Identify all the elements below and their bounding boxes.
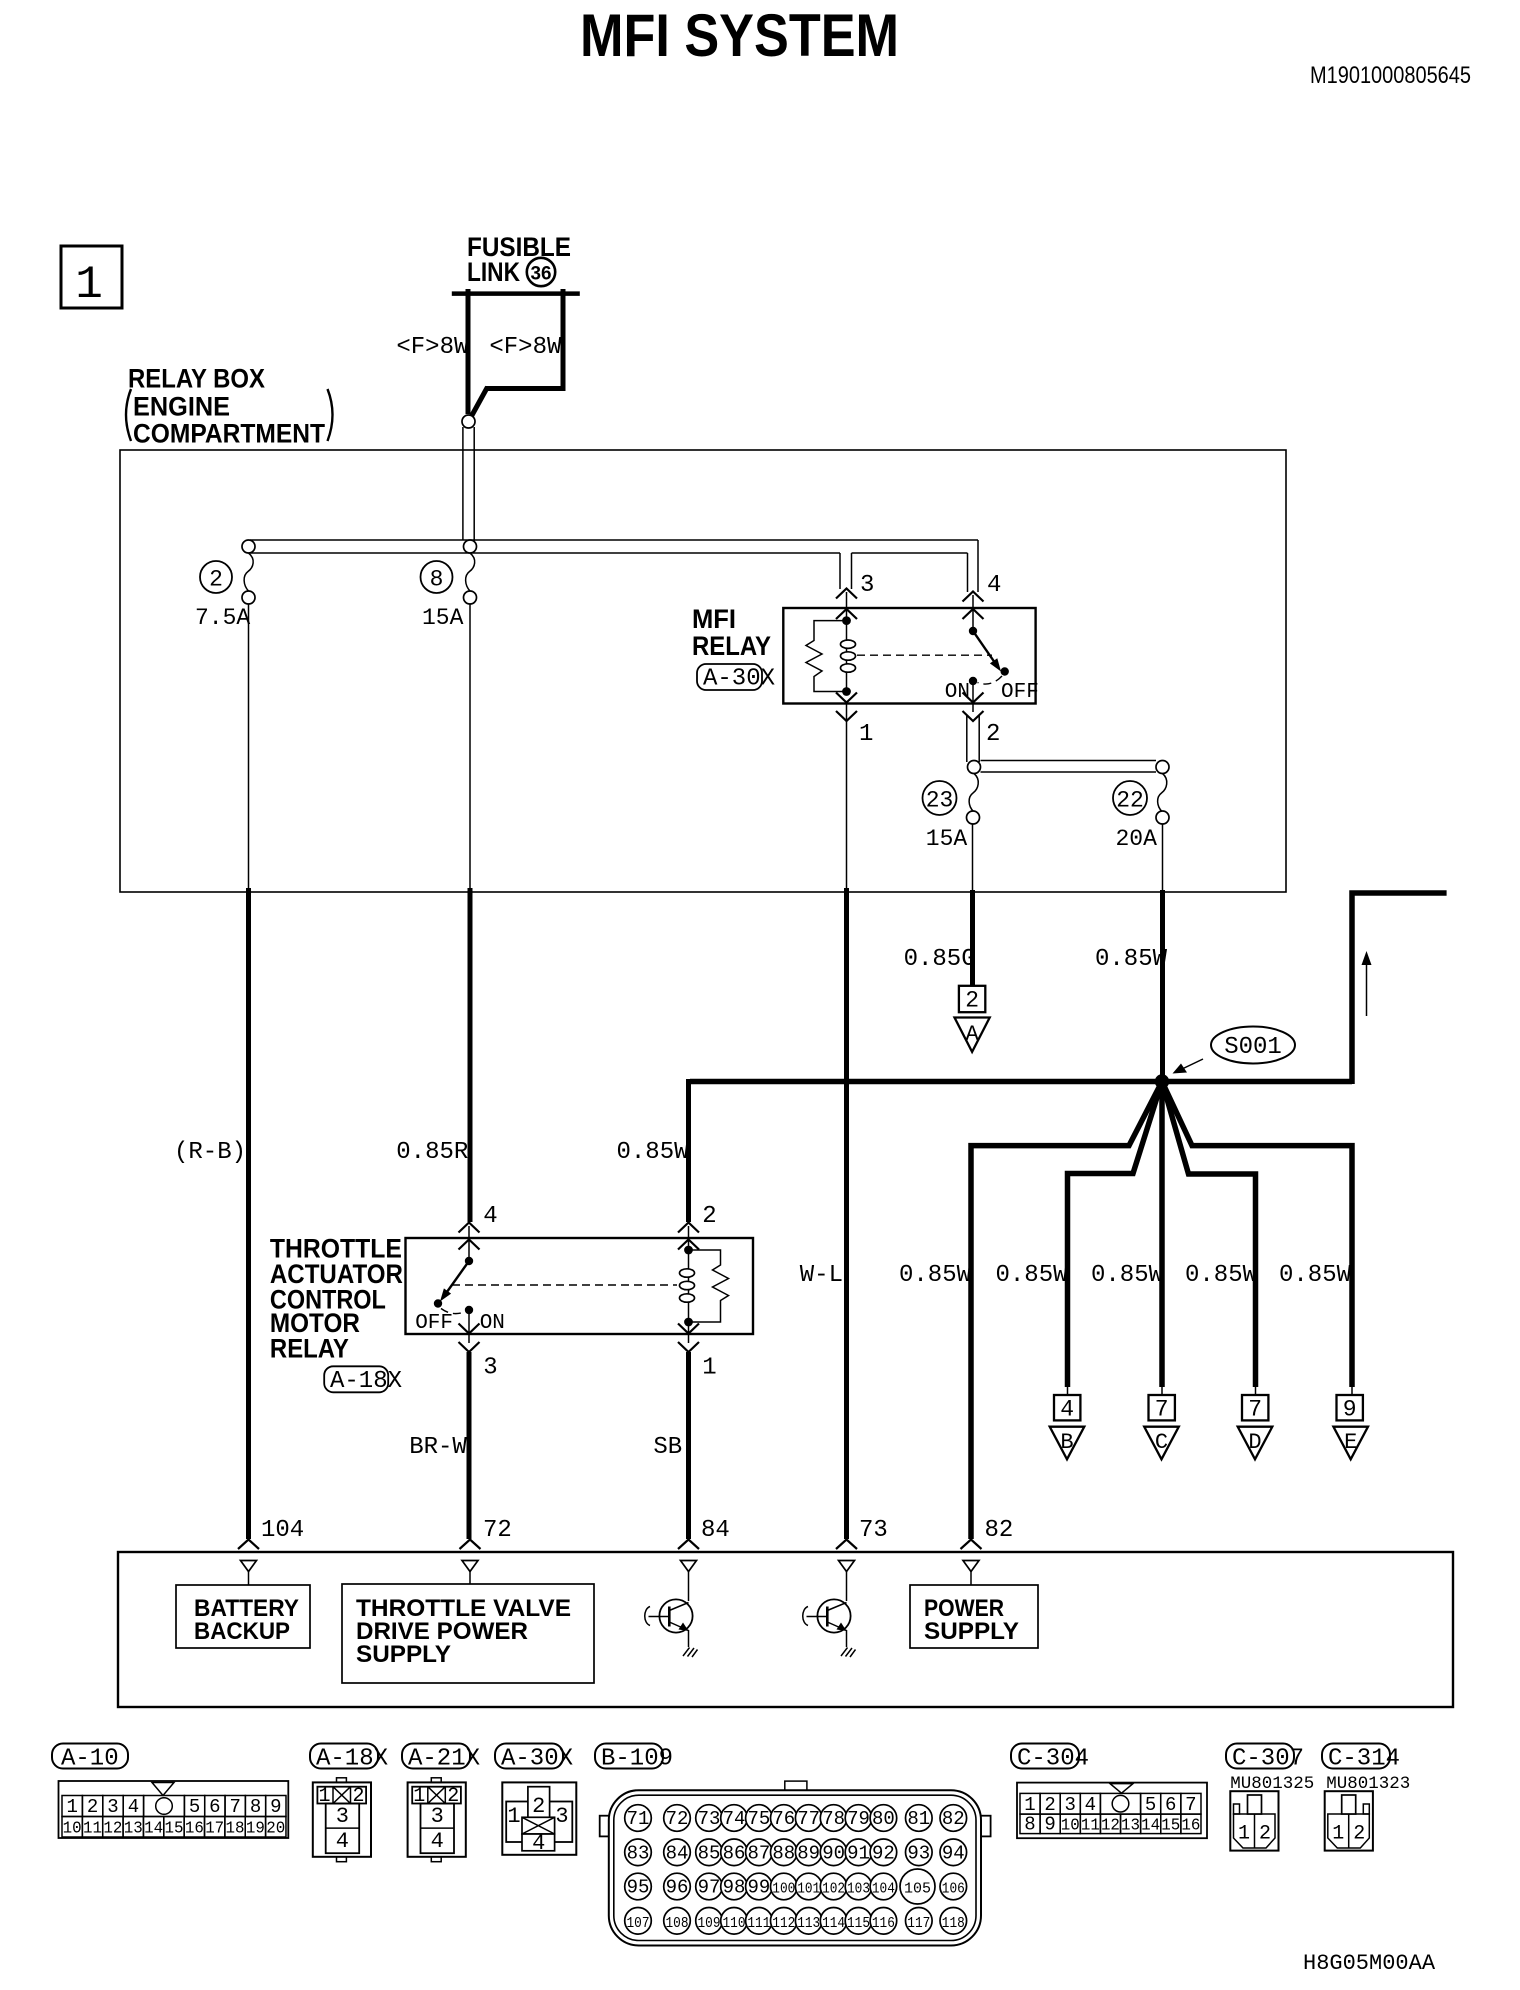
resistor in MFI relay	[806, 621, 847, 692]
svg-text:16: 16	[1181, 1817, 1200, 1836]
svg-text:SUPPLY: SUPPLY	[924, 1618, 1019, 1645]
svg-text:13: 13	[1121, 1817, 1140, 1836]
svg-text:8: 8	[1024, 1814, 1035, 1836]
svg-text:81: 81	[907, 1808, 930, 1830]
svg-text:17: 17	[205, 1820, 224, 1839]
svg-text:13: 13	[124, 1820, 143, 1839]
wire trunk left corner down to throttle relay pin 2	[686, 1079, 691, 1222]
svg-text:B: B	[1060, 1430, 1073, 1455]
svg-text:3: 3	[483, 1355, 497, 1382]
svg-text:115: 115	[847, 1915, 870, 1932]
fuse 8 element	[421, 553, 477, 631]
transistor Q1	[645, 1599, 693, 1647]
connector C-304 body	[1017, 1783, 1207, 1839]
node ON contact dot	[969, 677, 977, 685]
svg-text:1: 1	[318, 1785, 330, 1808]
svg-text:0.85R: 0.85R	[396, 1139, 468, 1166]
svg-text:87: 87	[747, 1842, 770, 1864]
svg-text:RELAY BOX: RELAY BOX	[128, 364, 265, 394]
svg-text:95: 95	[627, 1877, 650, 1899]
fuse 23 element	[923, 774, 980, 853]
svg-text:104: 104	[872, 1881, 895, 1898]
svg-text:2: 2	[532, 1794, 545, 1819]
svg-text:10: 10	[63, 1820, 82, 1839]
svg-text:84: 84	[666, 1842, 689, 1864]
dashed throw arc to ON contact	[978, 676, 1003, 684]
svg-text:7.5A: 7.5A	[195, 605, 250, 631]
svg-text:5: 5	[1145, 1794, 1156, 1816]
svg-text:108: 108	[666, 1915, 689, 1932]
svg-text:111: 111	[747, 1915, 770, 1932]
node S001 callout	[1173, 1027, 1296, 1074]
pin 1 terminal chevrons	[836, 693, 857, 722]
svg-text:1: 1	[413, 1785, 425, 1808]
svg-text:A-18X: A-18X	[330, 1368, 402, 1395]
svg-text:105: 105	[904, 1881, 931, 1898]
terminal box 4 above triangle B	[1050, 1385, 1085, 1459]
wire end arrow 82	[961, 1540, 982, 1550]
wire fan inner-left from S001 to terminal B	[1068, 1082, 1163, 1388]
svg-text:ON: ON	[945, 681, 970, 704]
svg-text:2: 2	[209, 567, 223, 593]
pin 4 terminal chevrons	[963, 592, 984, 620]
svg-text:2: 2	[702, 1203, 716, 1230]
svg-text:19: 19	[246, 1820, 265, 1839]
page number box 1	[61, 246, 122, 311]
wire fuse 23 down 0.85G thin	[972, 824, 974, 892]
wire from fuse 2 down (R-B) thin	[248, 604, 250, 889]
svg-text:114: 114	[822, 1915, 845, 1932]
wire MFI relay pin 2 double line down	[967, 716, 979, 762]
svg-text:1: 1	[66, 1796, 77, 1818]
svg-text:79: 79	[847, 1808, 870, 1830]
svg-text:9: 9	[1343, 1397, 1357, 1423]
svg-text:118: 118	[942, 1915, 965, 1932]
svg-text:SB: SB	[653, 1434, 682, 1461]
svg-text:2: 2	[986, 721, 1000, 748]
svg-text:MFI: MFI	[692, 604, 736, 634]
svg-text:112: 112	[772, 1915, 795, 1932]
wire fusible link left leg 8W	[466, 289, 471, 414]
svg-text:12: 12	[1101, 1817, 1120, 1836]
svg-text:1: 1	[859, 721, 873, 748]
svg-text:94: 94	[942, 1842, 965, 1864]
svg-text:4: 4	[987, 572, 1001, 599]
node fuse 22 top circle	[1156, 761, 1169, 774]
svg-text:71: 71	[627, 1808, 650, 1830]
svg-text:0.85G: 0.85G	[904, 946, 976, 973]
svg-text:100: 100	[772, 1881, 795, 1898]
svg-text:MFI SYSTEM: MFI SYSTEM	[580, 2, 899, 69]
wire 0.85W horizontal trunk	[690, 1079, 1352, 1085]
connector label C-304	[1011, 1744, 1089, 1773]
transistor Q2	[803, 1599, 851, 1647]
svg-text:BR-W: BR-W	[409, 1434, 467, 1461]
svg-text:A: A	[965, 1022, 979, 1047]
connector label A-10	[52, 1744, 128, 1773]
fusible link 36 label	[467, 232, 571, 287]
svg-text:0.85W: 0.85W	[1279, 1262, 1352, 1289]
svg-text:6: 6	[1165, 1794, 1176, 1816]
wire (R-B) thick from relay box to connector 104	[246, 888, 251, 1539]
svg-text:3: 3	[860, 572, 874, 599]
svg-text:14: 14	[1141, 1817, 1160, 1836]
connector label A-30X	[495, 1744, 573, 1773]
throttle actuator control motor relay label	[270, 1234, 403, 1364]
connector A-18X body	[313, 1778, 371, 1862]
svg-text:7: 7	[1185, 1794, 1196, 1816]
wire ON contact to pin 3	[468, 1310, 470, 1343]
svg-text:72: 72	[483, 1517, 512, 1544]
terminal box 2 above triangle A	[959, 986, 985, 1014]
dashed actuation line throttle relay	[452, 1284, 677, 1286]
op MFI relay box U1	[783, 608, 1035, 704]
node bus junction circle from fusible link	[464, 540, 477, 553]
svg-text:3: 3	[431, 1804, 444, 1829]
svg-text:116: 116	[872, 1915, 895, 1932]
dashed actuation line MFI relay	[857, 654, 992, 656]
connector B-109 ECU body	[600, 1781, 991, 1945]
node coil bottom dot	[842, 687, 851, 696]
wire MFI relay pin 1 down W-L thin	[846, 703, 848, 889]
female terminal 72	[462, 1561, 478, 1585]
pin 3 terminal chevrons	[836, 589, 857, 620]
svg-text:0.85W: 0.85W	[616, 1139, 689, 1166]
svg-text:8: 8	[250, 1796, 261, 1818]
svg-text:84: 84	[701, 1517, 730, 1544]
svg-text:<F>8W: <F>8W	[396, 334, 469, 361]
wire SB thick from pin 1 to connector 84	[686, 1352, 691, 1539]
svg-text:107: 107	[627, 1915, 650, 1932]
pin 2 terminal chevrons	[963, 693, 984, 722]
svg-text:12: 12	[103, 1820, 122, 1839]
wire ON contact to pin 2	[972, 681, 974, 712]
connector C-307 body	[1230, 1791, 1278, 1850]
female terminal 104	[241, 1561, 257, 1586]
svg-text:76: 76	[772, 1808, 795, 1830]
wire W-L thick from MFI relay pin 1 to connector 73	[844, 888, 849, 1539]
svg-text:72: 72	[666, 1808, 689, 1830]
node bus left circle at fuse 2	[242, 540, 255, 553]
connector label A-21X	[402, 1744, 480, 1773]
svg-text:COMPARTMENT: COMPARTMENT	[133, 419, 325, 449]
coil in throttle relay	[680, 1250, 695, 1322]
svg-text:103: 103	[847, 1881, 870, 1898]
svg-text:7: 7	[1248, 1397, 1262, 1423]
svg-text:4: 4	[336, 1829, 349, 1854]
svg-text:4: 4	[128, 1796, 139, 1818]
svg-text:20: 20	[266, 1820, 285, 1839]
svg-text:0.85W: 0.85W	[995, 1262, 1068, 1289]
svg-text:A-10: A-10	[61, 1746, 119, 1773]
connector label C-314	[1322, 1744, 1400, 1773]
svg-text:A-18X: A-18X	[316, 1746, 388, 1773]
pin 1 terminal chevrons throttle relay	[678, 1324, 699, 1353]
fuse 22 element	[1113, 774, 1169, 853]
svg-text:3: 3	[107, 1796, 118, 1818]
fusible link bar	[452, 291, 580, 296]
wire end arrow 104	[238, 1540, 259, 1550]
relay box (engine compartment) outline	[120, 450, 1286, 892]
switch arm throttle relay	[440, 1257, 473, 1302]
wire 0.85W thick from fuse 22 to node S001	[1160, 890, 1165, 1082]
wire from fuse 8 down 0.85R thin	[469, 604, 471, 889]
svg-text:A-30X: A-30X	[703, 666, 775, 693]
svg-text:9: 9	[270, 1796, 281, 1818]
ground Q1	[683, 1648, 698, 1658]
wire fan outer-right from S001 to terminal E	[1162, 1082, 1352, 1388]
svg-text:11: 11	[83, 1820, 102, 1839]
wire end arrow 84	[678, 1540, 699, 1550]
svg-text:90: 90	[822, 1842, 845, 1864]
svg-text:93: 93	[907, 1842, 930, 1864]
svg-text:2: 2	[965, 988, 979, 1014]
wire 0.85G thick from fuse 23 to terminal A	[970, 890, 975, 986]
node coil top dot throttle relay	[684, 1246, 693, 1255]
pin 4 terminal chevrons throttle relay	[459, 1223, 480, 1250]
svg-text:96: 96	[666, 1877, 689, 1899]
svg-text:(R-B): (R-B)	[174, 1139, 246, 1166]
wire fan inner-right from S001 to terminal D	[1162, 1082, 1256, 1388]
svg-text:RELAY: RELAY	[692, 631, 771, 661]
svg-text:A-21X: A-21X	[408, 1746, 480, 1773]
node fuse 23 top circle	[968, 761, 981, 774]
wire end arrow 72	[460, 1540, 481, 1550]
svg-text:1: 1	[1332, 1823, 1344, 1846]
svg-text:20A: 20A	[1116, 826, 1158, 852]
svg-text:15A: 15A	[422, 605, 464, 631]
svg-text:16: 16	[185, 1820, 204, 1839]
svg-text:1: 1	[75, 259, 103, 311]
svg-text:99: 99	[747, 1877, 770, 1899]
svg-text:7: 7	[1155, 1397, 1169, 1423]
node OFF contact dot	[1001, 667, 1009, 675]
svg-text:73: 73	[859, 1517, 888, 1544]
connector label C-307	[1226, 1744, 1304, 1773]
svg-text:ON: ON	[480, 1312, 505, 1335]
throttle relay box U2	[406, 1238, 754, 1334]
node coil top dot	[842, 616, 851, 625]
svg-text:H8G05M00AA: H8G05M00AA	[1303, 1951, 1436, 1976]
svg-text:92: 92	[872, 1842, 895, 1864]
svg-text:74: 74	[723, 1808, 746, 1830]
coil in MFI relay	[841, 621, 856, 692]
svg-text:D: D	[1248, 1430, 1261, 1455]
connector label A-30X of MFI relay	[697, 664, 775, 693]
svg-text:102: 102	[822, 1881, 845, 1898]
wire bus to fuse 22 double line	[981, 761, 1157, 773]
svg-text:82: 82	[942, 1808, 965, 1830]
svg-text:6: 6	[209, 1796, 220, 1818]
svg-text:18: 18	[226, 1820, 245, 1839]
wire pin4 center stub	[972, 595, 974, 630]
svg-text:75: 75	[747, 1808, 770, 1830]
arrow up beside right trunk	[1362, 951, 1372, 1016]
wire pin3 center stub	[846, 592, 848, 620]
ECU box outline	[118, 1552, 1453, 1707]
svg-text:7: 7	[229, 1796, 240, 1818]
connector label B-109	[595, 1744, 673, 1773]
wire coil bottom to pin 1	[688, 1322, 690, 1343]
wire bus A upper outline	[250, 539, 978, 541]
svg-text:8: 8	[430, 567, 444, 593]
terminal box 7 above triangle D	[1238, 1385, 1273, 1459]
svg-text:88: 88	[772, 1842, 795, 1864]
svg-text:W-L: W-L	[800, 1262, 843, 1289]
connector A-21X body	[408, 1778, 466, 1862]
svg-text:106: 106	[942, 1881, 965, 1898]
wire fusible link right leg 8W	[471, 289, 566, 417]
svg-text:78: 78	[822, 1808, 845, 1830]
svg-text:117: 117	[907, 1915, 930, 1932]
svg-text:1: 1	[702, 1355, 716, 1382]
svg-text:1: 1	[1238, 1823, 1250, 1846]
svg-text:<F>8W: <F>8W	[489, 334, 562, 361]
svg-text:101: 101	[797, 1881, 820, 1898]
svg-text:2: 2	[1259, 1823, 1271, 1846]
svg-text:3: 3	[555, 1804, 568, 1829]
svg-text:15A: 15A	[926, 826, 968, 852]
power supply block	[910, 1585, 1038, 1648]
throttle valve drive power supply block	[342, 1584, 594, 1683]
svg-text:0.85W: 0.85W	[1095, 946, 1168, 973]
svg-text:97: 97	[698, 1877, 721, 1899]
svg-text:1: 1	[507, 1804, 520, 1829]
svg-text:0.85W: 0.85W	[1185, 1262, 1258, 1289]
svg-text:77: 77	[797, 1808, 820, 1830]
svg-text:BACKUP: BACKUP	[194, 1618, 290, 1645]
wire pin4 stub to pivot	[468, 1226, 470, 1261]
connector label A-18X of throttle relay	[324, 1366, 402, 1395]
resistor in throttle relay	[689, 1250, 729, 1322]
svg-text:109: 109	[698, 1915, 721, 1932]
connector junction circle above relay box	[462, 415, 475, 428]
node OFF contact dot throttle relay	[434, 1299, 442, 1307]
node S001 junction dot	[1155, 1074, 1169, 1088]
wire fan outer-left from S001 to connector 82	[971, 1082, 1162, 1540]
svg-text:91: 91	[847, 1842, 870, 1864]
svg-text:14: 14	[144, 1820, 163, 1839]
svg-text:C-314: C-314	[1328, 1746, 1400, 1773]
svg-text:E: E	[1344, 1430, 1357, 1455]
svg-text:B-109: B-109	[601, 1746, 673, 1773]
wire fan center from S001 to terminal C	[1159, 1082, 1165, 1388]
svg-text:OFF: OFF	[415, 1312, 453, 1335]
svg-text:2: 2	[1353, 1823, 1365, 1846]
svg-text:M1901000805645: M1901000805645	[1310, 62, 1471, 89]
svg-text:22: 22	[1116, 788, 1144, 814]
female terminal 73	[839, 1561, 855, 1602]
pin 2 terminal chevrons throttle relay	[678, 1223, 699, 1250]
svg-text:0.85W: 0.85W	[899, 1262, 972, 1289]
ground Q2	[841, 1648, 856, 1658]
svg-text:73: 73	[698, 1808, 721, 1830]
wire end arrow 73	[836, 1540, 857, 1550]
svg-text:2: 2	[352, 1785, 364, 1808]
svg-text:4: 4	[431, 1829, 444, 1854]
dashed throw arc to ON contact throttle relay	[441, 1309, 465, 1314]
wire MFI relay pin 4 double line	[968, 540, 979, 592]
wire BR-W thick from pin 3 to connector 72	[467, 1352, 472, 1539]
svg-text:3: 3	[1064, 1794, 1075, 1816]
svg-text:C-307: C-307	[1232, 1746, 1304, 1773]
wire 8W double line into relay box	[463, 427, 474, 552]
svg-text:SUPPLY: SUPPLY	[356, 1641, 451, 1668]
svg-text:98: 98	[723, 1877, 746, 1899]
svg-text:RELAY: RELAY	[270, 1333, 349, 1363]
svg-text:110: 110	[723, 1915, 746, 1932]
wire fuse 22 down 0.85W thin	[1162, 824, 1164, 892]
svg-text:0.85W: 0.85W	[1091, 1262, 1164, 1289]
svg-text:11: 11	[1081, 1817, 1100, 1836]
terminal box 9 above triangle E	[1333, 1385, 1368, 1459]
wire trunk right corner up and right to next page	[1352, 893, 1447, 1084]
svg-text:4: 4	[1060, 1397, 1074, 1423]
svg-text:1: 1	[1024, 1794, 1035, 1816]
svg-text:10: 10	[1061, 1817, 1080, 1836]
svg-text:4: 4	[1085, 1794, 1096, 1816]
svg-text:9: 9	[1044, 1814, 1055, 1836]
battery backup block	[176, 1585, 310, 1648]
svg-text:23: 23	[926, 788, 954, 814]
svg-text:3: 3	[336, 1804, 349, 1829]
svg-text:89: 89	[797, 1842, 820, 1864]
svg-text:85: 85	[698, 1842, 721, 1864]
svg-text:ENGINE: ENGINE	[133, 392, 230, 422]
svg-text:86: 86	[723, 1842, 746, 1864]
female terminal 82	[963, 1561, 979, 1586]
connector A-30X body	[502, 1782, 576, 1856]
svg-text:C-304: C-304	[1017, 1746, 1089, 1773]
wire bus B lower outline with branch gaps	[250, 552, 968, 554]
svg-text:82: 82	[985, 1517, 1014, 1544]
svg-text:2: 2	[447, 1785, 459, 1808]
svg-text:113: 113	[797, 1915, 820, 1932]
svg-text:LINK: LINK	[467, 257, 520, 287]
switch arm MFI relay	[969, 627, 1001, 672]
svg-text:15: 15	[1161, 1817, 1180, 1836]
connector label A-18X	[310, 1744, 388, 1773]
svg-text:36: 36	[531, 264, 552, 285]
svg-text:S001: S001	[1224, 1034, 1282, 1061]
svg-text:C: C	[1155, 1430, 1168, 1455]
wire MFI relay pin 3 double line	[840, 553, 852, 589]
MFI relay label	[692, 604, 771, 661]
svg-text:5: 5	[189, 1796, 200, 1818]
svg-text:A-30X: A-30X	[501, 1746, 573, 1773]
node coil bottom dot throttle relay	[684, 1318, 693, 1327]
svg-text:4: 4	[483, 1203, 497, 1230]
wire 0.85R thick from fuse 8 to throttle relay pin 4	[468, 888, 473, 1222]
svg-text:2: 2	[87, 1796, 98, 1818]
svg-text:4: 4	[532, 1831, 545, 1856]
relay box label	[126, 364, 333, 449]
terminal triangle A	[955, 1018, 990, 1052]
connector C-314 body	[1325, 1791, 1373, 1850]
svg-text:2: 2	[1044, 1794, 1055, 1816]
svg-text:80: 80	[872, 1808, 895, 1830]
terminal box 7 above triangle C	[1144, 1385, 1179, 1459]
node ON contact dot throttle relay	[465, 1306, 473, 1314]
fuse 2 element	[195, 553, 255, 631]
svg-text:104: 104	[261, 1517, 304, 1544]
pin 3 terminal chevrons throttle relay	[459, 1324, 480, 1353]
female terminal 84	[681, 1561, 697, 1602]
wire pin2 stub to coil	[688, 1226, 690, 1250]
connector A-10 body	[59, 1781, 289, 1839]
svg-text:15: 15	[164, 1820, 183, 1839]
svg-text:83: 83	[627, 1842, 650, 1864]
